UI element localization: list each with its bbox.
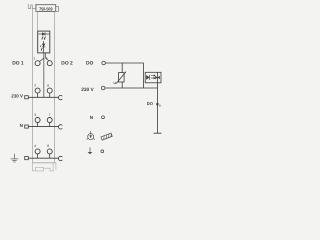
terminal 1 [35, 61, 40, 66]
module body [32, 9, 34, 163]
label box 750-509 [36, 5, 56, 12]
svg-text:230 V: 230 V [81, 87, 94, 93]
node N right [102, 116, 105, 119]
svg-text:DO 2: DO 2 [61, 60, 73, 66]
plug PE [25, 157, 29, 160]
svg-text:3: 3 [34, 113, 36, 117]
plug 230V [25, 96, 29, 99]
down arrow symbol [89, 147, 91, 152]
svg-text:N: N [20, 123, 23, 128]
wire to terminal 5 [45, 58, 50, 62]
terminal 6 [47, 88, 52, 93]
svg-text:2: 2 [34, 84, 36, 88]
output terminal bar [154, 132, 162, 134]
svg-text:DO: DO [147, 101, 154, 106]
node 230V terminal [101, 86, 105, 90]
LED D1 arrows [42, 36, 43, 38]
varistor RV1 [121, 63, 123, 73]
svg-text:5: 5 [46, 56, 48, 60]
LED D2 arrows [41, 48, 42, 50]
coupling arrows [151, 75, 155, 77]
wire to terminal 1 [39, 58, 44, 61]
plug N [25, 125, 29, 128]
N rail wire [29, 126, 59, 128]
svg-text:1: 1 [33, 56, 35, 60]
svg-text:4: 4 [34, 144, 36, 148]
terminal 8 [47, 149, 52, 154]
PE rail wire [29, 157, 59, 159]
terminal 4 [35, 149, 40, 154]
svg-text:6: 6 [47, 84, 49, 88]
hook row2 [58, 95, 62, 99]
arrowhead on output [156, 103, 159, 106]
LED inside opto [146, 75, 149, 80]
bus contacts [28, 4, 36, 9]
svg-text:8: 8 [47, 144, 49, 148]
LED D1 [38, 33, 49, 35]
LED D2 [43, 41, 45, 53]
optocoupler U2 [145, 72, 161, 83]
shield earth symbol [87, 131, 95, 140]
terminal 3 [35, 118, 40, 123]
svg-text:750-509: 750-509 [39, 7, 53, 12]
internal wires [43, 53, 45, 97]
hook row3 [58, 125, 62, 129]
terminal 2 [35, 88, 40, 93]
node DO terminal [102, 61, 106, 65]
hook row4 [58, 156, 62, 160]
triac [157, 72, 159, 83]
svg-text:230 V: 230 V [11, 93, 23, 98]
wire 230V bottom [105, 87, 158, 89]
terminal 5 [47, 61, 52, 66]
rail profile [33, 163, 56, 171]
node arrow right [101, 150, 104, 153]
wire DO top [105, 63, 143, 88]
output wire DO [157, 83, 159, 133]
electronics box U1 [38, 31, 50, 53]
terminal 7 [47, 118, 52, 123]
rail badge [101, 133, 112, 140]
svg-text:7: 7 [49, 113, 51, 117]
svg-text:DO 1: DO 1 [12, 60, 24, 66]
svg-text:DO: DO [86, 60, 94, 66]
earth symbol left [11, 154, 19, 162]
230V rail wire [29, 96, 59, 98]
